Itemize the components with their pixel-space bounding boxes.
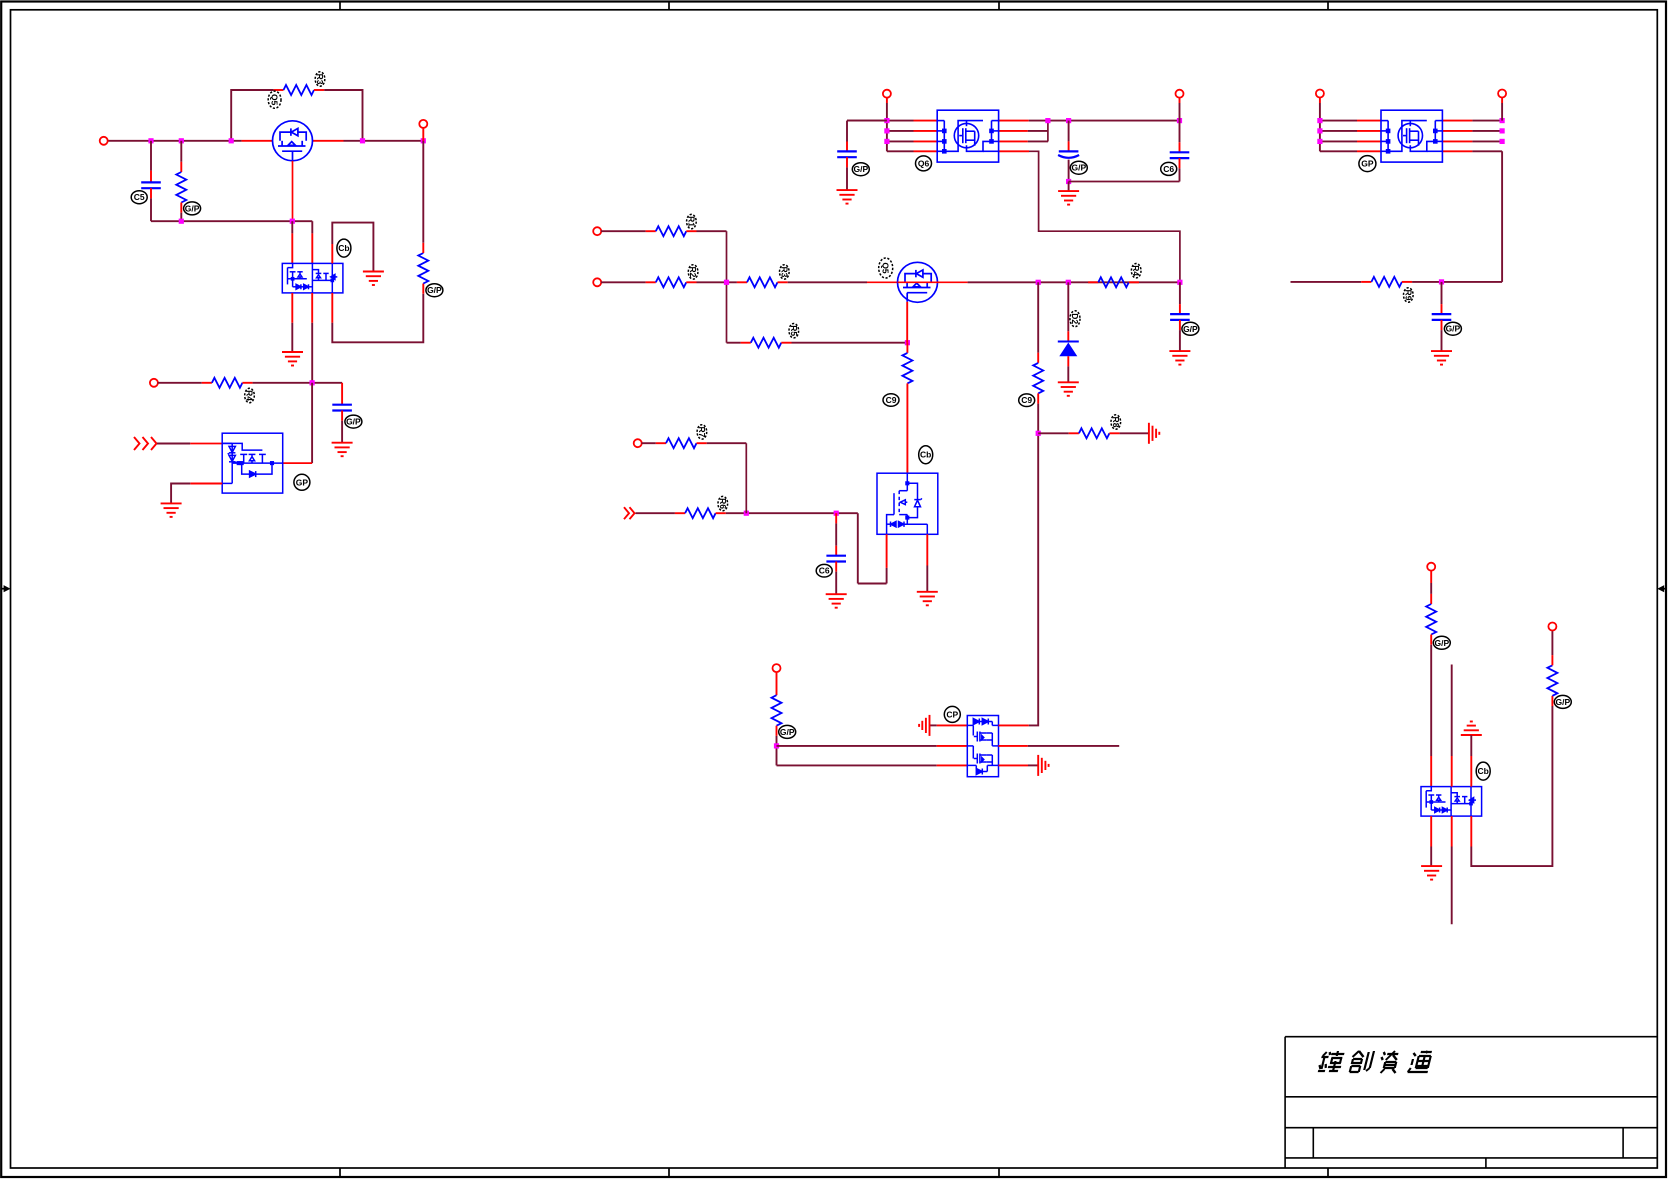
- side ground right low: [1038, 755, 1048, 776]
- ground under U7: [1421, 866, 1442, 880]
- ground under C3: [837, 190, 858, 204]
- wire line3 y=141.4: [887, 140, 914, 142]
- ground under C8: [1169, 351, 1190, 365]
- U7 pin1 bottom to ground: [1430, 816, 1432, 846]
- resistor R17: [1371, 277, 1402, 287]
- terminal P6: [593, 227, 601, 235]
- capacitor C5: [1179, 121, 1181, 143]
- svg-text:G/P: G/P: [1555, 697, 1570, 707]
- U1 bottom pin 1 to ground: [291, 293, 293, 323]
- U2 right pin: [283, 462, 312, 464]
- U7 pin2 vertical net: [1451, 665, 1453, 757]
- svg-text:G/P: G/P: [1446, 324, 1461, 334]
- node junctions on y=140.8: [148, 138, 153, 143]
- wire line1 y=120.6: [847, 120, 914, 122]
- svg-text:R9: R9: [1403, 290, 1413, 301]
- label R10: [789, 324, 799, 338]
- wire net top-left y=140.8: [108, 140, 242, 142]
- svg-text:C9: C9: [1021, 395, 1032, 405]
- capacitor C8: [1179, 282, 1181, 304]
- U1 bottom pin 2: [311, 293, 313, 323]
- dual-FET U2: [222, 433, 283, 493]
- terminal P10: [1316, 90, 1324, 98]
- resistor R7: [656, 277, 687, 287]
- label C7: [816, 564, 832, 577]
- terminal P12: [1427, 563, 1435, 571]
- label R16: [1111, 415, 1121, 429]
- diode D1: [1067, 282, 1069, 331]
- border zone ticks top: [339, 2, 341, 10]
- svg-text:Q5: Q5: [881, 262, 891, 274]
- terminal P2 top right: [419, 120, 427, 128]
- capacitor C4 polarized: [1068, 121, 1070, 142]
- label C3: [852, 163, 869, 176]
- transistor Q2: [898, 262, 938, 302]
- label R3: [315, 72, 325, 86]
- terminal P1 left: [100, 137, 108, 145]
- resistor R4: [212, 378, 243, 388]
- label Cb mid: [919, 446, 933, 464]
- label R19: [1554, 695, 1571, 708]
- svg-text:Cb: Cb: [920, 450, 931, 460]
- wire right riser down: [1501, 151, 1503, 282]
- svg-text:GP: GP: [1361, 159, 1374, 169]
- svg-text:R2: R2: [688, 266, 698, 277]
- wire x=312.1 vertical to U2: [311, 383, 313, 463]
- border zone ticks bottom: [339, 1168, 341, 1177]
- label D1: [1070, 311, 1080, 327]
- side ground right mid: [1149, 423, 1159, 444]
- label Q2: [879, 258, 893, 278]
- svg-text:Q5: Q5: [270, 94, 280, 106]
- svg-text:R5: R5: [789, 325, 799, 336]
- U1 bottom pin 3 loop to R5: [331, 293, 333, 323]
- U7 pin3 bottom loop: [1470, 816, 1472, 846]
- resistor R9 on drain net: [1088, 281, 1098, 283]
- wire loop over Q1: [231, 90, 274, 141]
- svg-text:G/P: G/P: [1183, 324, 1198, 334]
- svg-text:Cb: Cb: [1478, 766, 1489, 776]
- label CP: [944, 706, 960, 722]
- Q2 right pin: [938, 281, 968, 283]
- svg-text:C5: C5: [134, 192, 145, 202]
- wire riser x746: [745, 443, 747, 513]
- ground under U2: [161, 503, 182, 517]
- svg-text:G/P: G/P: [185, 203, 200, 213]
- ground under D1: [1058, 382, 1079, 396]
- svg-text:C9: C9: [886, 395, 897, 405]
- title block: [1285, 1037, 1657, 1168]
- svg-text:G/P: G/P: [1071, 163, 1086, 173]
- dual-FET U5 (CP): [967, 716, 998, 777]
- dual-FET U4 (Cb): [877, 473, 938, 534]
- wire through Q2: [898, 281, 938, 283]
- wire net y=221.2: [151, 220, 312, 222]
- svg-text:G/P: G/P: [780, 727, 795, 737]
- dual-FET U1: [282, 263, 343, 293]
- svg-text:D2: D2: [1070, 313, 1080, 324]
- U4 bottom-left pin: [886, 534, 888, 568]
- svg-text:R6: R6: [718, 498, 728, 509]
- wire line2 y=130.9: [887, 130, 914, 132]
- x=1038 net upper: [1037, 282, 1039, 352]
- svg-text:R4: R4: [1131, 265, 1141, 276]
- U4 bottom-right pin to ground: [926, 534, 928, 565]
- svg-text:R3: R3: [779, 266, 789, 277]
- label U6: [1359, 156, 1376, 172]
- resistor R6: [656, 226, 687, 236]
- label Cb: [337, 239, 351, 257]
- wire rows into U5: [777, 745, 937, 747]
- resistor R19 vertical: [1547, 665, 1557, 696]
- ground under U4: [917, 592, 938, 606]
- off-page chevrons: [134, 437, 140, 450]
- svg-text:R4: R4: [245, 390, 255, 401]
- label U3: [916, 156, 932, 171]
- ground under U1: [282, 352, 303, 366]
- Q2 gate pin: [867, 281, 898, 283]
- capacitor C7: [835, 513, 837, 523]
- capacitor C1 left: [150, 141, 152, 171]
- label R7: [688, 265, 698, 279]
- U5 left pin to side ground: [937, 724, 968, 726]
- border mid arrow right: [1662, 588, 1666, 590]
- resistor R5 right: [418, 253, 428, 284]
- wire riser x726: [726, 231, 728, 343]
- terminal P4: [883, 90, 891, 98]
- label C8: [1182, 322, 1199, 335]
- resistor R14 vertical: [772, 695, 782, 726]
- resistor R8: [747, 277, 778, 287]
- label R5: [426, 284, 443, 297]
- label C2: [345, 415, 362, 428]
- svg-text:G/P: G/P: [1434, 638, 1449, 648]
- label C4: [1070, 161, 1087, 174]
- net y=281.9 right: [1291, 281, 1362, 283]
- wire Q1 source down: [292, 161, 294, 221]
- MOSFET pack U3: [937, 110, 998, 162]
- label R8: [780, 265, 790, 279]
- svg-text:GP: GP: [296, 477, 309, 487]
- svg-text:C6: C6: [819, 566, 830, 576]
- svg-text:R7: R7: [697, 426, 707, 437]
- ground under C4: [1058, 191, 1079, 205]
- MOSFET pack U6: [1381, 110, 1442, 162]
- resistor R13: [666, 438, 697, 448]
- border mid arrow left: [1, 588, 6, 590]
- resistor R10: [751, 338, 782, 348]
- wire Cb jog to ground: [331, 244, 333, 263]
- side ground left: [919, 715, 929, 736]
- capacitor C10: [1441, 282, 1443, 304]
- terminal P13: [1548, 623, 1556, 631]
- ground under C2: [332, 443, 353, 457]
- label R2: [184, 202, 201, 215]
- U5 right pins: [999, 724, 1029, 726]
- svg-text:G/P: G/P: [346, 417, 361, 427]
- U2 left pin a: [190, 443, 222, 445]
- svg-text:R3: R3: [315, 74, 325, 85]
- svg-text:G/P: G/P: [853, 164, 868, 174]
- U2 left pin b to ground: [190, 483, 222, 485]
- wire C4-C5 bottom: [1069, 181, 1180, 183]
- resistor R12: [685, 508, 716, 518]
- terminal P5: [1176, 90, 1184, 98]
- svg-text:R8: R8: [1111, 417, 1121, 428]
- label R6: [687, 214, 697, 228]
- right pack lines: [1320, 120, 1357, 122]
- terminal P7: [593, 278, 601, 286]
- label R9: [1131, 264, 1141, 278]
- label GP: [294, 474, 310, 490]
- label R14: [779, 725, 796, 738]
- wire from pack to mid net: [1029, 151, 1180, 282]
- svg-text:R1: R1: [686, 216, 696, 227]
- terminal P8: [634, 439, 642, 447]
- ground under C10: [1431, 351, 1452, 365]
- label R18: [1433, 636, 1450, 649]
- label R12: [718, 496, 728, 510]
- label C5: [1161, 162, 1177, 175]
- label R13: [697, 425, 707, 439]
- label C10: [1444, 322, 1461, 335]
- wire line4 y=151.3: [887, 150, 914, 152]
- label R4: [245, 388, 255, 402]
- title text 緯創資通: [1318, 1051, 1433, 1073]
- capacitor C2: [341, 383, 343, 405]
- resistor R11 vertical: [906, 343, 908, 353]
- wire stubs into U1: [291, 221, 293, 233]
- label R17: [1404, 288, 1414, 302]
- terminal P11: [1498, 90, 1506, 98]
- wire y=342.7 row: [727, 342, 741, 344]
- branch to side ground: [1038, 432, 1069, 434]
- Q2 source down: [906, 302, 908, 343]
- svg-text:C6: C6: [1163, 164, 1174, 174]
- label Cb right: [1476, 762, 1490, 780]
- label R11: [883, 394, 899, 407]
- svg-text:CP: CP: [946, 709, 958, 719]
- label Q1: [268, 91, 281, 108]
- net y=513.2: [624, 507, 629, 519]
- resistor R1 (top loop): [284, 85, 315, 95]
- resistor R16: [1079, 428, 1110, 438]
- dual-FET U7: [1421, 787, 1482, 817]
- resistor R15 vertical: [1033, 363, 1043, 394]
- label C1: [131, 191, 147, 204]
- capacitor C3: [847, 120, 887, 122]
- svg-text:Q6: Q6: [918, 158, 930, 168]
- ground under C7: [826, 594, 847, 608]
- svg-text:Cb: Cb: [338, 243, 349, 253]
- ground (inverted): [1461, 722, 1482, 736]
- svg-text:G/P: G/P: [427, 285, 442, 295]
- ground (Cb): [363, 272, 384, 286]
- transistor Q1: [273, 121, 313, 161]
- terminal P9: [773, 664, 781, 672]
- label R15: [1019, 394, 1035, 407]
- resistor R18 vertical: [1426, 604, 1436, 635]
- resistor R2 vertical: [180, 141, 182, 162]
- terminal P3: [150, 379, 158, 387]
- wire right riser: [1047, 121, 1049, 142]
